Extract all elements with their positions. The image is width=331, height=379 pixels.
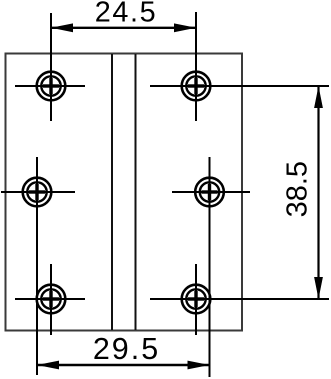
- center line bottom-right screw horizontal / extension 38.5 bottom: [150, 298, 329, 300]
- inner vertical line left: [111, 54, 113, 330]
- body outline: [6, 54, 243, 331]
- screw terminal middle-right: [195, 178, 224, 207]
- center line top-left screw vertical / extension 24.5 left: [50, 13, 52, 121]
- center line top-right screw horizontal / extension 38.5 top: [150, 85, 329, 87]
- dimension 38.5 label: [282, 161, 314, 217]
- center line middle-right screw vertical / extension 29.5 right: [209, 157, 211, 377]
- screw terminal top-right: [182, 72, 211, 101]
- center line bottom-left screw vertical: [50, 264, 52, 335]
- screw terminal top-left: [37, 72, 66, 101]
- dimension 29.5 line: [37, 361, 210, 370]
- inner vertical line right: [135, 54, 137, 330]
- center line top-left screw horizontal: [15, 85, 85, 87]
- center line middle-right screw horizontal: [172, 191, 250, 193]
- dimension 29.5 label: [93, 332, 160, 366]
- center line middle-left screw vertical / extension 29.5 left: [36, 157, 38, 375]
- svg-text:38.5: 38.5: [282, 161, 314, 217]
- dimension 24.5 label: [95, 0, 157, 29]
- screw terminal middle-left: [23, 178, 52, 207]
- center line top-right screw vertical / extension 24.5 right: [195, 12, 197, 121]
- center line bottom-left screw horizontal: [15, 298, 85, 300]
- svg-text:24.5: 24.5: [95, 0, 157, 29]
- svg-text:29.5: 29.5: [93, 332, 160, 366]
- center line middle-left screw horizontal: [1, 191, 75, 193]
- screw terminal bottom-right: [182, 285, 211, 314]
- screw terminal bottom-left: [37, 285, 66, 314]
- dimension 24.5 line: [51, 23, 196, 32]
- dimension 38.5 line: [314, 86, 323, 299]
- center line bottom-right screw vertical: [195, 264, 197, 335]
